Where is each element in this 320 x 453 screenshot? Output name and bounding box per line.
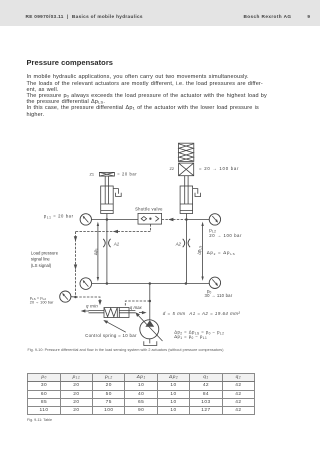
load mass Z1 [99, 172, 114, 176]
arrowhead into shuttle valve [168, 218, 173, 221]
svg-text:pL1 = 20 bar: pL1 = 20 bar [44, 213, 74, 219]
svg-text:q min: q min [86, 303, 98, 308]
wire pump pressure line p0 [92, 283, 210, 285]
svg-text:Control spring = 10 bar: Control spring = 10 bar [85, 333, 137, 338]
tank pump [144, 341, 157, 345]
control valve right rod [119, 311, 135, 313]
throttle A1 [103, 239, 110, 247]
pressure gauge P0 left [80, 278, 92, 290]
drain line Z2 [193, 189, 198, 194]
title [27, 58, 114, 67]
tank Z1 drain [116, 193, 122, 197]
node p0-Z2 junction [185, 282, 188, 285]
node Z1 branch junction [106, 218, 109, 221]
svg-text:Load pressure: Load pressure [31, 250, 59, 255]
pump P1 [140, 320, 159, 339]
svg-text:d = 5 mm: d = 5 mm [163, 311, 186, 316]
measurement arrow dpLS [201, 222, 203, 281]
wire gauge PLS link [71, 296, 76, 298]
svg-text:= 20 bar: = 20 bar [117, 171, 137, 176]
wire Z2 cylinder outlet [185, 214, 187, 220]
svg-text:signal line: signal line [31, 257, 51, 262]
wire pump riser [149, 284, 151, 321]
spring load Z2 [178, 143, 193, 161]
drain line Z1 [113, 189, 118, 194]
svg-text:Z2: Z2 [169, 166, 174, 171]
control valve left rod [89, 311, 105, 313]
dashed pilot wire p0 to control valve [125, 301, 150, 306]
dashed LS wire vertical [75, 232, 77, 298]
arrow q min [81, 309, 89, 312]
arrow q max [139, 311, 147, 314]
dashed LS wire horizontal [76, 231, 151, 233]
header band [0, 0, 320, 26]
wire gauge PL1 to shuttle valve [92, 219, 139, 221]
svg-text:A1 = A2 = 19.64 mm²: A1 = A2 = 19.64 mm² [188, 311, 240, 316]
svg-text:Δp1 = p0 − pL1: Δp1 = p0 − pL1 [174, 334, 207, 340]
svg-text:= 20 → 100 bar: = 20 → 100 bar [199, 166, 239, 171]
pressure gauge PL2 [209, 214, 220, 225]
svg-text:Δp1: Δp1 [93, 248, 99, 255]
node pilot junction [149, 300, 152, 303]
svg-text:20 → 100 bar: 20 → 100 bar [30, 301, 54, 305]
dashed LS wire to control valve [76, 297, 101, 301]
load mass Z2 [179, 163, 194, 176]
svg-text:Shuttle valve: Shuttle valve [135, 206, 163, 211]
figure caption 9-11 [27, 418, 52, 422]
dashed wire Z2 junction to shuttle valve [162, 219, 187, 221]
table [27, 373, 255, 415]
pressure gauge PLS [60, 291, 71, 302]
measurement arrow dp1 [97, 222, 99, 282]
cylinder Z1 [101, 186, 114, 214]
shuttle valve U3 [138, 213, 162, 224]
wire Z2 flow line down [185, 220, 187, 284]
svg-text:20 → 100 bar: 20 → 100 bar [209, 233, 242, 238]
node p0-pump junction [149, 282, 152, 285]
wire Z1 cylinder outlet [106, 214, 108, 220]
arrowhead LS left [113, 230, 118, 233]
pressure gauge P0 right [209, 277, 220, 288]
cylinder Z2 piston rod [185, 176, 188, 204]
svg-text:Δp2 = ΔpLS: Δp2 = ΔpLS [207, 250, 236, 256]
svg-text:Z1: Z1 [89, 171, 94, 176]
pump variable displacement arrow [135, 312, 162, 341]
label Load pressure signal line [31, 250, 59, 267]
throttle A2 [183, 239, 190, 247]
arrowhead LS into control valve [98, 300, 101, 305]
arrowhead LS down 1 [74, 236, 77, 241]
control valve (pump regulator) [104, 308, 129, 318]
svg-text:(LS signal): (LS signal) [31, 263, 52, 268]
paragraph [27, 74, 287, 117]
svg-text:q max: q max [130, 305, 143, 310]
tank Z2 drain [195, 193, 201, 197]
node Z2 branch junction [185, 218, 188, 221]
node p0-Z1 junction [106, 282, 109, 285]
cylinder Z2 [180, 186, 193, 214]
cylinder Z1 piston rod [105, 176, 108, 204]
arrowhead LS down 2 [74, 265, 77, 270]
dashed LS wire from shuttle valve down [149, 224, 151, 231]
svg-text:A2: A2 [175, 241, 182, 246]
svg-text:30 → 110 bar: 30 → 110 bar [205, 293, 233, 298]
pressure gauge PL1 [80, 214, 91, 225]
svg-text:ΔpLS: ΔpLS [196, 246, 202, 255]
wire Z1 flow line down [106, 220, 108, 284]
wire pump to tank [149, 339, 151, 344]
wire Z2 junction to gauge PL2 [186, 219, 209, 221]
figure caption 9-10 [28, 348, 224, 352]
svg-text:A1: A1 [113, 241, 119, 246]
label arrow control spring [103, 320, 126, 332]
node LS junction [74, 296, 77, 299]
